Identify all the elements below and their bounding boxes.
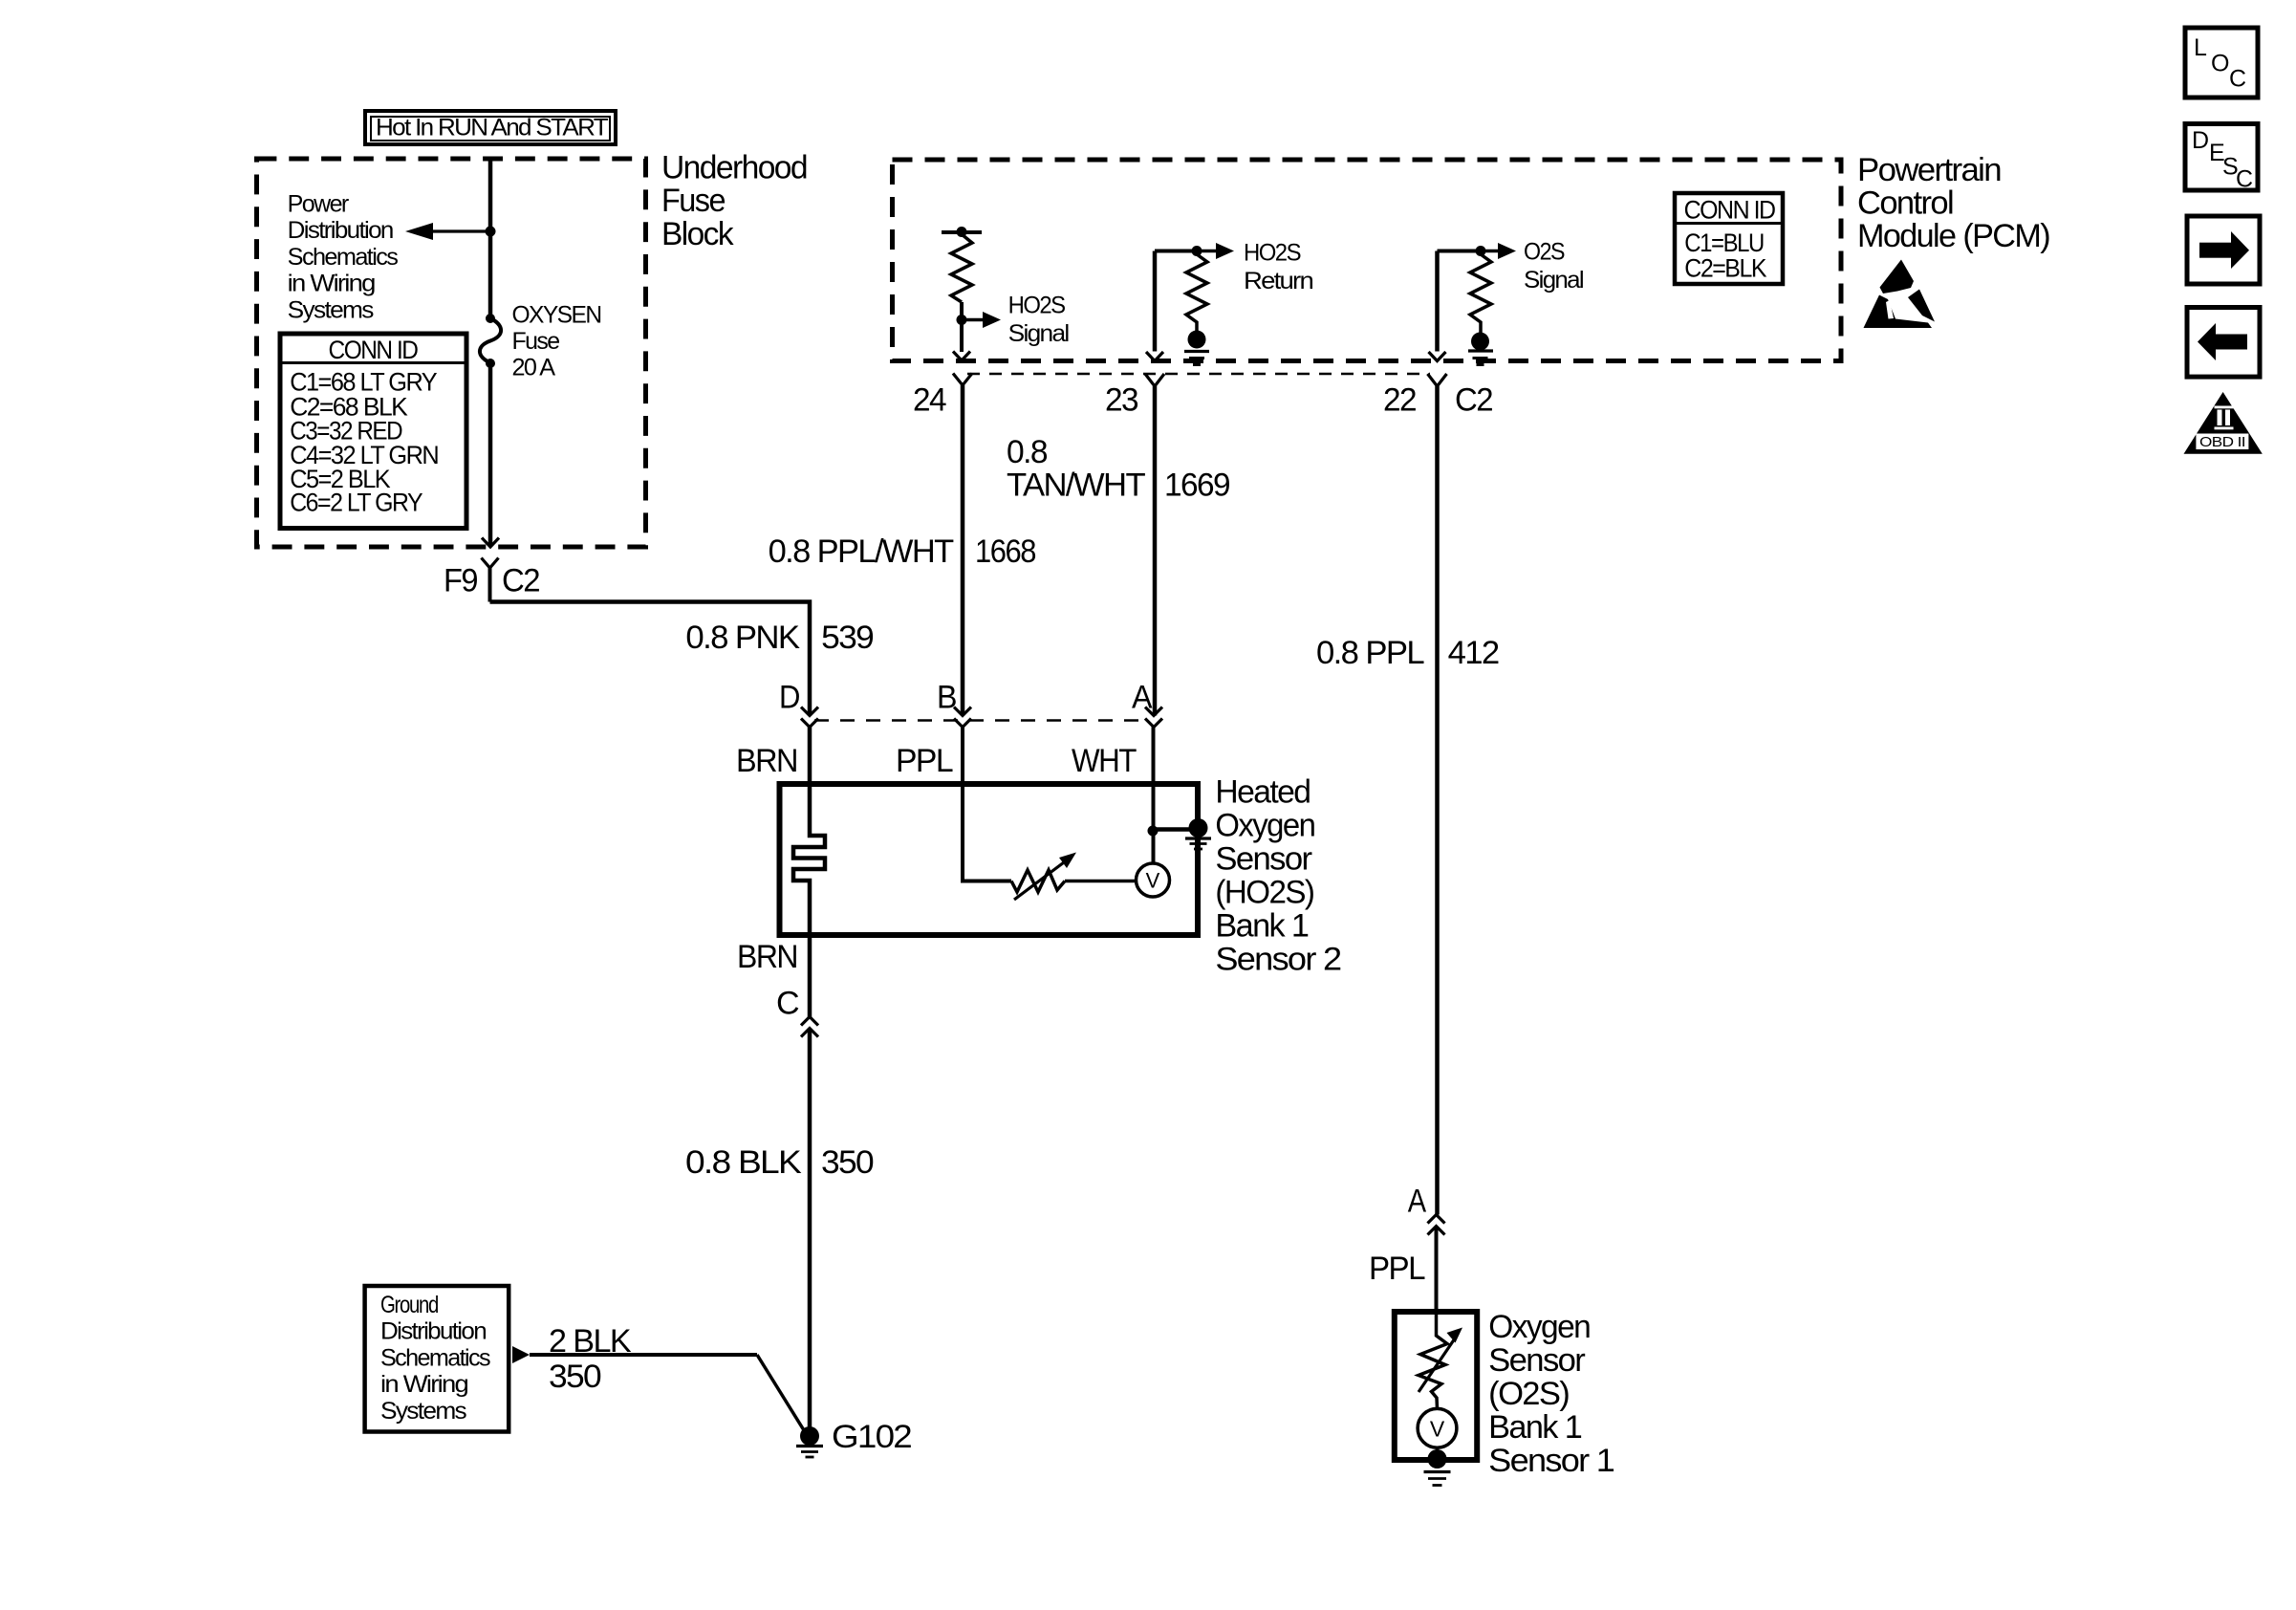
svg-text:C: C bbox=[2229, 66, 2246, 93]
svg-text:PPL: PPL bbox=[1369, 1251, 1425, 1287]
svg-text:0.8 PNK: 0.8 PNK bbox=[685, 620, 800, 656]
ground distribution box bbox=[365, 1286, 509, 1432]
svg-text:Block: Block bbox=[661, 216, 735, 252]
svg-text:Bank 1: Bank 1 bbox=[1488, 1409, 1582, 1446]
svg-text:WHT: WHT bbox=[1072, 743, 1137, 779]
svg-text:Distribution: Distribution bbox=[380, 1318, 487, 1345]
svg-text:C6=2 LT GRY: C6=2 LT GRY bbox=[290, 489, 422, 517]
fuse OXYSEN 20A bbox=[480, 314, 501, 368]
svg-text:TAN/WHT: TAN/WHT bbox=[1007, 468, 1145, 504]
svg-text:Underhood: Underhood bbox=[661, 150, 807, 186]
label Underhood Fuse Block bbox=[661, 150, 807, 253]
svg-text:V: V bbox=[1146, 869, 1160, 893]
svg-text:in Wiring: in Wiring bbox=[380, 1371, 468, 1398]
pin 24 connector bbox=[953, 374, 972, 386]
svg-text:V: V bbox=[1430, 1417, 1445, 1442]
connector D bbox=[801, 707, 818, 728]
svg-text:Schematics: Schematics bbox=[380, 1344, 490, 1371]
svg-text:A: A bbox=[1132, 680, 1153, 716]
svg-text:CONN ID: CONN ID bbox=[1684, 196, 1776, 225]
svg-text:A: A bbox=[1408, 1184, 1427, 1220]
svg-text:Powertrain: Powertrain bbox=[1857, 152, 2001, 188]
wire arrowhead into edge pin 24 bbox=[953, 352, 970, 361]
svg-text:C2: C2 bbox=[502, 563, 540, 599]
connector F9 C2 receptacle bbox=[482, 558, 499, 602]
svg-text:Return: Return bbox=[1244, 268, 1313, 294]
svg-text:O: O bbox=[2211, 51, 2229, 77]
ground pin 23 internal bbox=[1184, 331, 1209, 365]
svg-text:O2S: O2S bbox=[1524, 239, 1565, 266]
svg-text:Ground: Ground bbox=[380, 1292, 439, 1318]
svg-text:L: L bbox=[2194, 34, 2207, 61]
connector F9 arrowhead at box edge bbox=[482, 538, 499, 548]
svg-text:Oxygen: Oxygen bbox=[1215, 808, 1314, 844]
svg-text:0.8 BLK: 0.8 BLK bbox=[685, 1144, 802, 1181]
svg-text:C: C bbox=[776, 986, 799, 1022]
wire BLK to G102 bbox=[808, 1029, 812, 1429]
svg-text:22: 22 bbox=[1383, 382, 1417, 419]
icon OBD II triangle bbox=[2184, 392, 2263, 454]
svg-text:1669: 1669 bbox=[1164, 468, 1230, 504]
ground G102 bbox=[796, 1426, 823, 1457]
svg-text:HO2S: HO2S bbox=[1008, 292, 1066, 318]
wire resistor to voltage source bbox=[1065, 880, 1137, 883]
wire fuse to box bottom bbox=[488, 363, 493, 546]
label Power Distribution Schematics in Wiring Systems bbox=[288, 191, 399, 324]
connector C2 dashed line bbox=[967, 373, 1430, 376]
svg-text:Sensor 1: Sensor 1 bbox=[1488, 1443, 1614, 1479]
svg-text:1668: 1668 bbox=[975, 533, 1036, 570]
connector B bbox=[954, 707, 971, 728]
icon right arrow box bbox=[2187, 216, 2260, 284]
svg-text:Heated: Heated bbox=[1215, 774, 1310, 811]
pin 22 connector bbox=[1428, 374, 1447, 386]
Underhood Fuse Block dashed box bbox=[257, 159, 646, 547]
HO2S sensor box bbox=[780, 784, 1199, 935]
svg-text:Signal: Signal bbox=[1008, 320, 1069, 347]
wire arrowhead into edge pin 22 bbox=[1429, 352, 1446, 361]
svg-text:Schematics: Schematics bbox=[288, 244, 399, 271]
icon LOC box bbox=[2185, 28, 2258, 98]
svg-text:Control: Control bbox=[1857, 185, 1953, 222]
wire from box top to fuse bbox=[488, 159, 493, 318]
svg-text:0.8: 0.8 bbox=[1007, 434, 1048, 470]
pin 23 connector bbox=[1145, 374, 1164, 386]
wire arrow HO2S Signal bbox=[962, 312, 1001, 328]
svg-text:20 A: 20 A bbox=[512, 355, 556, 381]
svg-text:Signal: Signal bbox=[1524, 267, 1583, 294]
wire arrow HO2S Return bbox=[1197, 243, 1234, 259]
off-page triangle connector bbox=[512, 1346, 530, 1363]
svg-text:Systems: Systems bbox=[288, 296, 374, 323]
svg-text:BRN: BRN bbox=[736, 743, 797, 779]
svg-text:C2=BLK: C2=BLK bbox=[1684, 254, 1766, 283]
icon DESC box bbox=[2185, 124, 2258, 193]
ground O2S case bbox=[1424, 1449, 1451, 1486]
connector A bbox=[1145, 707, 1162, 728]
label Powertrain Control Module (PCM) bbox=[1857, 152, 2049, 254]
wire WHT to junction and V bbox=[1152, 728, 1156, 864]
node junction pin 24 bbox=[957, 315, 967, 325]
wire 2 BLK 350 to G102 bbox=[530, 1355, 804, 1430]
svg-text:Sensor: Sensor bbox=[1215, 841, 1311, 878]
svg-text:Bank 1: Bank 1 bbox=[1215, 908, 1309, 945]
svg-text:Sensor 2: Sensor 2 bbox=[1215, 942, 1341, 978]
svg-text:23: 23 bbox=[1105, 382, 1138, 419]
svg-text:OXYSEN: OXYSEN bbox=[512, 301, 602, 328]
svg-text:(HO2S): (HO2S) bbox=[1215, 875, 1313, 911]
svg-text:(O2S): (O2S) bbox=[1488, 1376, 1569, 1412]
svg-text:Hot In RUN And START: Hot In RUN And START bbox=[376, 115, 608, 141]
svg-text:0.8 PPL: 0.8 PPL bbox=[1316, 635, 1424, 671]
svg-text:OBD II: OBD II bbox=[2199, 434, 2245, 450]
svg-text:G102: G102 bbox=[832, 1419, 912, 1455]
heater element and BRN wire bbox=[793, 728, 825, 1017]
variable resistor (heater element control) bbox=[1011, 853, 1076, 901]
svg-text:in Wiring: in Wiring bbox=[288, 271, 376, 297]
wire junction to case ground bbox=[1153, 827, 1193, 832]
label HO2S Signal bbox=[1008, 292, 1069, 347]
label box "Hot In RUN And START" bbox=[365, 111, 616, 144]
svg-text:CONN ID: CONN ID bbox=[329, 336, 419, 364]
wire pin 22 to O2S sensor bbox=[1435, 386, 1440, 1215]
ground case HO2S bbox=[1185, 818, 1211, 849]
connector C bbox=[801, 1017, 818, 1037]
connector A at O2S bbox=[1428, 1215, 1445, 1235]
voltage source V (HO2S) bbox=[1137, 863, 1170, 897]
label Ground Distribution Schematics in Wiring Systems bbox=[380, 1292, 490, 1425]
svg-text:Sensor: Sensor bbox=[1488, 1342, 1585, 1379]
O2S sensor box bbox=[1395, 1312, 1477, 1460]
svg-text:Oxygen: Oxygen bbox=[1488, 1309, 1590, 1345]
svg-text:539: 539 bbox=[821, 620, 874, 656]
wire pin 24 to B bbox=[961, 385, 965, 716]
svg-text:D: D bbox=[779, 680, 799, 716]
svg-text:BRN: BRN bbox=[737, 939, 797, 975]
wire arrowhead into edge pin 23 bbox=[1146, 352, 1163, 361]
variable resistor O2S bbox=[1419, 1314, 1462, 1409]
wire pin 22 vertical bbox=[1435, 251, 1440, 352]
svg-text:Distribution: Distribution bbox=[288, 217, 394, 244]
wire PPL into box bbox=[963, 728, 1011, 881]
resistor HO2S signal (pin 24) bbox=[942, 227, 982, 352]
label HO2S Return bbox=[1244, 239, 1313, 294]
svg-text:350: 350 bbox=[821, 1144, 874, 1181]
svg-text:B: B bbox=[937, 680, 956, 716]
svg-text:350: 350 bbox=[549, 1359, 601, 1395]
svg-text:24: 24 bbox=[913, 382, 946, 419]
wire arrow O2S Signal bbox=[1481, 243, 1516, 259]
label 0.8 TAN/WHT bbox=[1007, 434, 1145, 504]
wire V to ground bbox=[1436, 1447, 1440, 1451]
connector DBA dashed line bbox=[814, 719, 1149, 722]
resistor HO2S return (pin 23) bbox=[1155, 246, 1207, 333]
svg-text:2 BLK: 2 BLK bbox=[549, 1323, 632, 1360]
svg-text:C1=BLU: C1=BLU bbox=[1684, 228, 1764, 257]
icon left arrow box bbox=[2187, 308, 2260, 378]
wire PPL into O2S bbox=[1435, 1227, 1439, 1313]
svg-text:412: 412 bbox=[1448, 635, 1500, 671]
svg-text:Fuse: Fuse bbox=[512, 328, 560, 355]
svg-text:F9: F9 bbox=[444, 563, 478, 599]
node junction to power distribution bbox=[486, 227, 496, 237]
PCM CONN ID table bbox=[1675, 193, 1783, 284]
wire PNK from F9 to D bbox=[490, 602, 811, 716]
label Heated Oxygen Sensor (HO2S) Bank 1 Sensor 2 bbox=[1215, 774, 1341, 978]
svg-text:Fuse: Fuse bbox=[661, 183, 726, 219]
svg-text:Module (PCM): Module (PCM) bbox=[1857, 218, 2049, 254]
svg-text:HO2S: HO2S bbox=[1244, 239, 1301, 266]
label OXYSEN Fuse 20 A bbox=[512, 301, 602, 381]
PCM dashed box bbox=[893, 160, 1842, 361]
svg-text:Power: Power bbox=[288, 191, 349, 218]
svg-text:Systems: Systems bbox=[380, 1398, 466, 1425]
svg-text:PPL: PPL bbox=[896, 743, 953, 779]
svg-text:D: D bbox=[2192, 127, 2208, 154]
voltage source V (O2S) bbox=[1418, 1408, 1457, 1447]
svg-text:C2: C2 bbox=[1455, 382, 1493, 419]
wire pin 23 to A bbox=[1153, 386, 1158, 716]
label O2S Signal bbox=[1524, 239, 1583, 294]
svg-text:0.8 PPL/WHT: 0.8 PPL/WHT bbox=[769, 533, 954, 570]
svg-text:C: C bbox=[2236, 166, 2253, 193]
ESD sensitive device symbol bbox=[1864, 260, 1936, 329]
left CONN ID table bbox=[280, 334, 466, 529]
node junction WHT bbox=[1148, 826, 1159, 837]
ground pin 22 internal bbox=[1468, 333, 1493, 365]
wire arrow to Power Distribution bbox=[405, 223, 490, 240]
label Oxygen Sensor (O2S) Bank 1 Sensor 1 bbox=[1488, 1309, 1614, 1479]
resistor O2S signal (pin 22) bbox=[1438, 246, 1492, 333]
wire pin 23 vertical bbox=[1153, 251, 1158, 352]
